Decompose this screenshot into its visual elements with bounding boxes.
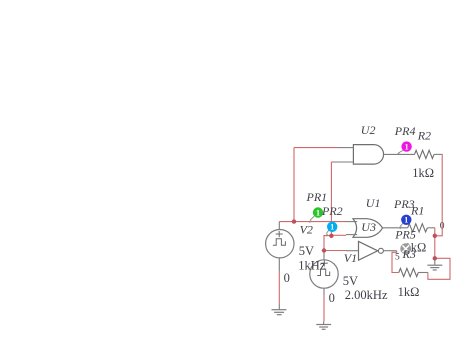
svg-text:1: 1: [405, 142, 409, 151]
svg-text:5: 5: [395, 253, 400, 263]
svg-text:1kΩ: 1kΩ: [412, 166, 434, 180]
svg-text:1kHz: 1kHz: [298, 258, 326, 272]
svg-text:R1: R1: [410, 204, 424, 218]
svg-text:PR2: PR2: [321, 204, 343, 218]
svg-text:1kΩ: 1kΩ: [398, 285, 420, 299]
svg-text:V2: V2: [300, 223, 313, 237]
svg-text:R3: R3: [402, 247, 416, 261]
svg-text:PR5: PR5: [394, 227, 416, 241]
svg-text:V1: V1: [344, 251, 357, 265]
svg-text:PR4: PR4: [394, 124, 416, 138]
svg-text:0: 0: [284, 271, 290, 285]
svg-text:R2: R2: [417, 129, 431, 143]
svg-text:PR1: PR1: [306, 190, 328, 204]
svg-text:U3: U3: [361, 220, 376, 234]
svg-text:1: 1: [316, 208, 320, 217]
svg-text:2.00kHz: 2.00kHz: [345, 288, 388, 302]
svg-text:5V: 5V: [299, 244, 314, 258]
svg-text:5V: 5V: [343, 274, 358, 288]
svg-text:U1: U1: [366, 196, 381, 210]
svg-text:0: 0: [329, 291, 335, 305]
svg-text:0: 0: [440, 221, 445, 231]
svg-text:1: 1: [330, 223, 334, 232]
svg-text:U2: U2: [361, 123, 376, 137]
svg-text:1: 1: [404, 216, 408, 225]
